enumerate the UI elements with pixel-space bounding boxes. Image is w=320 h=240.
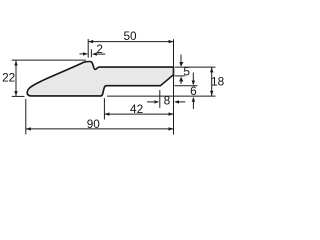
svg-text:42: 42 xyxy=(130,102,143,116)
part profile outline xyxy=(27,62,173,96)
svg-text:22: 22 xyxy=(2,71,15,85)
dimension 2 xyxy=(90,49,92,57)
dimension 18 xyxy=(107,67,216,96)
dimension 8 xyxy=(159,90,161,108)
svg-text:18: 18 xyxy=(211,74,225,88)
svg-text:8: 8 xyxy=(164,94,171,108)
svg-text:5: 5 xyxy=(183,64,190,78)
svg-text:90: 90 xyxy=(87,117,101,131)
svg-text:50: 50 xyxy=(123,29,137,43)
svg-text:6: 6 xyxy=(190,84,197,98)
dimension 42 xyxy=(104,98,173,119)
dimension 22 xyxy=(12,60,86,96)
dimension 50 xyxy=(88,39,173,58)
dimension 90 xyxy=(26,99,174,134)
dimension 5 xyxy=(180,55,182,62)
svg-text:2: 2 xyxy=(96,42,103,56)
extension line right (shared by 50, 42, 90) xyxy=(173,39,175,134)
dimension 6 xyxy=(192,73,194,81)
